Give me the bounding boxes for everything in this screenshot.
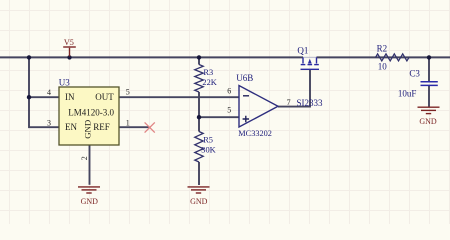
svg-text:22K: 22K [202, 78, 216, 87]
svg-text:10uF: 10uF [398, 89, 417, 99]
svg-text:OUT: OUT [95, 92, 114, 102]
svg-text:2: 2 [80, 156, 89, 160]
resistor R5 [195, 132, 203, 163]
svg-text:1: 1 [126, 118, 130, 127]
opamp minus sign [243, 95, 249, 97]
svg-text:C3: C3 [409, 69, 420, 79]
no-ERC marker on pin 1 [145, 122, 155, 132]
svg-text:GND: GND [190, 197, 208, 206]
svg-text:6: 6 [227, 87, 231, 96]
svg-text:30K: 30K [201, 146, 215, 155]
svg-text:R3: R3 [203, 68, 213, 77]
wire pin 1 REF stub [119, 126, 149, 128]
Q1 arrow [308, 59, 312, 64]
ground under R5 [188, 187, 210, 193]
svg-text:LM4120-3.0: LM4120-3.0 [68, 107, 114, 117]
opamp plus sign [243, 116, 249, 122]
svg-text:EN: EN [65, 122, 77, 132]
op-amp U6B [239, 86, 278, 128]
svg-text:5: 5 [227, 106, 231, 115]
svg-text:GND: GND [82, 120, 92, 139]
junction at R2/C3 node [427, 55, 431, 59]
svg-text:GND: GND [81, 197, 99, 206]
wire C3 bottom to GND [428, 86, 430, 107]
wire opamp output pin7 to Q1 gate [278, 70, 310, 107]
svg-text:V5: V5 [64, 38, 74, 47]
junction at R3 top [197, 55, 201, 59]
resistor R3 [195, 65, 203, 93]
svg-text:3: 3 [47, 118, 51, 127]
wire R3 top stub [198, 57, 200, 64]
ground under C3 [418, 107, 440, 113]
junction at pin4 tee [27, 95, 31, 99]
wire R5 bottom to GND [198, 162, 200, 185]
junction at divider node [197, 115, 201, 119]
junction at node A [27, 55, 31, 59]
ground under U3 [78, 187, 100, 193]
wire main rail right segment [317, 56, 450, 58]
svg-text:GND: GND [419, 117, 437, 126]
svg-text:5: 5 [126, 87, 130, 96]
wire main rail left segment [0, 56, 303, 58]
capacitor C3 [421, 82, 438, 86]
wire vertical from node A down to EN [29, 57, 59, 127]
svg-text:U3: U3 [59, 77, 70, 87]
svg-text:Q1: Q1 [297, 46, 308, 56]
svg-text:IN: IN [65, 92, 75, 102]
wire U3 pin2 to GND [89, 145, 91, 185]
svg-text:R2: R2 [377, 43, 388, 53]
junction at V5 tap [67, 55, 71, 59]
svg-text:REF: REF [93, 122, 110, 132]
svg-text:SI2333: SI2333 [297, 98, 324, 108]
svg-text:R5: R5 [203, 135, 213, 144]
resistor R2 [376, 54, 410, 61]
wire OUT pin5 to opamp pin6 [119, 96, 239, 98]
wire divider node to opamp pin5 [199, 116, 239, 118]
wire faint segment under Q1 [303, 56, 317, 58]
wire R3 bottom to R5 top [198, 92, 200, 132]
regulator U3 body [59, 87, 119, 145]
svg-text:10: 10 [378, 62, 388, 72]
transistor Q1 [301, 57, 320, 69]
power symbol V5 [63, 47, 76, 56]
svg-text:MC33202: MC33202 [238, 129, 272, 138]
svg-text:U6B: U6B [236, 73, 253, 83]
svg-text:4: 4 [47, 88, 51, 97]
wire pin 4 IN [29, 96, 59, 98]
wire C3 top [428, 57, 430, 81]
svg-text:7: 7 [287, 98, 291, 107]
